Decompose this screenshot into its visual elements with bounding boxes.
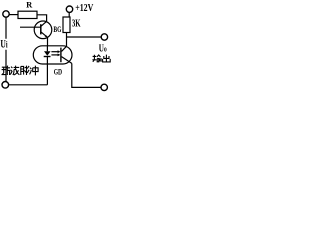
char 出 [103, 55, 111, 62]
phototransistor base bar [60, 48, 62, 63]
light arrow 2 [51, 54, 58, 56]
LED cathode wire down [46, 57, 48, 85]
wire 3K down to optocoupler collector [66, 33, 68, 47]
phototransistor collector diagonal [62, 46, 67, 51]
wire junction to Uo [67, 36, 102, 38]
terminal T2 (Ui bottom input) [2, 82, 9, 89]
wire R to transistor collector [37, 15, 47, 21]
transistor BG base bar [40, 24, 42, 34]
terminal T1 (Ui top input) [3, 11, 9, 17]
char 波 [10, 66, 19, 75]
transistor BG emitter diagonal with arrow [41, 32, 48, 38]
resistor R [18, 11, 37, 18]
LED triangle [44, 51, 51, 55]
char 冲 [30, 66, 39, 76]
svg-text:3K: 3K [72, 17, 81, 29]
svg-text:Ui: Ui [0, 38, 8, 51]
svg-text:R: R [26, 0, 33, 10]
terminal T4 (Uo top) [101, 34, 107, 40]
svg-text:Uo: Uo [99, 42, 107, 54]
transistor BG base lead [20, 26, 41, 28]
LED anode wire [46, 46, 48, 52]
label 斩波脉冲 (chopper pulse) drawn strokes [2, 66, 39, 76]
char 脉 [21, 66, 29, 75]
wire phototransistor emitter down and right [72, 63, 101, 87]
char 输 [92, 55, 101, 62]
wire +12V to 3K [68, 13, 70, 17]
wire T1 to R [9, 14, 18, 16]
svg-text:BG: BG [53, 26, 62, 34]
transistor BG collector diagonal [41, 21, 47, 26]
wire BG emitter down to optocoupler [47, 37, 49, 46]
wire bottom-left to LED cathode [9, 84, 48, 86]
terminal T3 (+12V) [66, 6, 72, 12]
optocoupler GD body (stadium) [33, 46, 72, 64]
transistor BG body [34, 21, 52, 39]
label 输出 (output) drawn strokes [92, 55, 110, 62]
terminal T5 (output bottom) [101, 84, 107, 90]
svg-text:+12V: +12V [75, 2, 94, 13]
resistor 3K [63, 17, 70, 33]
wire left side Ui vertical [5, 17, 7, 81]
LED cathode bar [44, 56, 51, 58]
light arrow 1 [51, 51, 58, 53]
svg-text:GD: GD [54, 67, 62, 76]
phototransistor emitter diagonal [62, 57, 72, 64]
char 斩 [2, 66, 11, 75]
